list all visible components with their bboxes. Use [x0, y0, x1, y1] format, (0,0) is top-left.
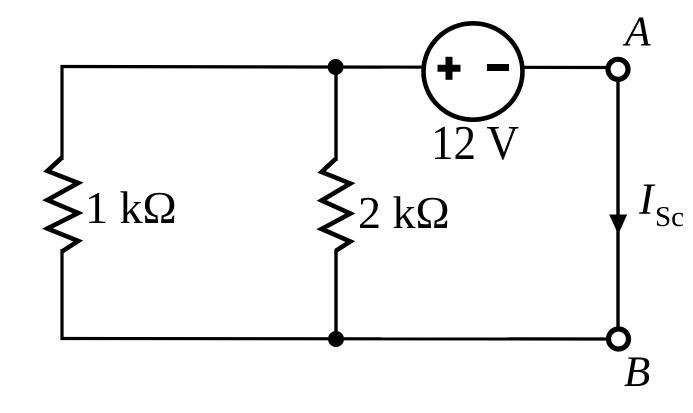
minus polarity mark inside source	[487, 64, 509, 71]
terminal B open circle	[609, 329, 629, 349]
svg-text:Sc: Sc	[655, 201, 684, 233]
current label I Sc	[638, 175, 684, 234]
svg-text:1 kΩ: 1 kΩ	[85, 182, 177, 233]
wire: right vertical from arrowhead down to B	[616, 230, 619, 328]
svg-text:A: A	[622, 10, 651, 56]
resistor R1 zigzag	[47, 158, 78, 252]
wire: top horizontal from left corner to terminal A	[61, 67, 608, 68]
junction node at top middle	[328, 59, 344, 75]
value label 2 kOhm	[358, 187, 450, 238]
value label 1 kOhm	[85, 182, 177, 233]
terminal A open circle	[608, 59, 628, 79]
current arrowhead for Isc	[609, 215, 627, 235]
junction node at bottom middle	[328, 331, 344, 347]
svg-text:2 kΩ: 2 kΩ	[358, 187, 450, 238]
svg-text:B: B	[624, 349, 650, 396]
node label A	[622, 10, 651, 56]
wire: bottom horizontal from left corner to terminal B	[61, 337, 608, 341]
svg-text:12 V: 12 V	[431, 115, 519, 170]
svg-text:I: I	[638, 175, 656, 224]
voltage source V1 circle	[424, 23, 523, 119]
wire: middle vertical upper segment	[334, 66, 337, 161]
wire: left vertical upper segment	[60, 65, 63, 160]
wire: middle vertical lower segment	[334, 250, 337, 340]
resistor R2 zigzag	[322, 159, 351, 251]
wire: left vertical lower segment	[60, 249, 63, 340]
plus polarity mark inside source	[438, 57, 461, 80]
node label B	[624, 349, 650, 396]
value label 12 V	[431, 115, 519, 170]
wire: right vertical from A down to arrowhead	[616, 81, 619, 218]
